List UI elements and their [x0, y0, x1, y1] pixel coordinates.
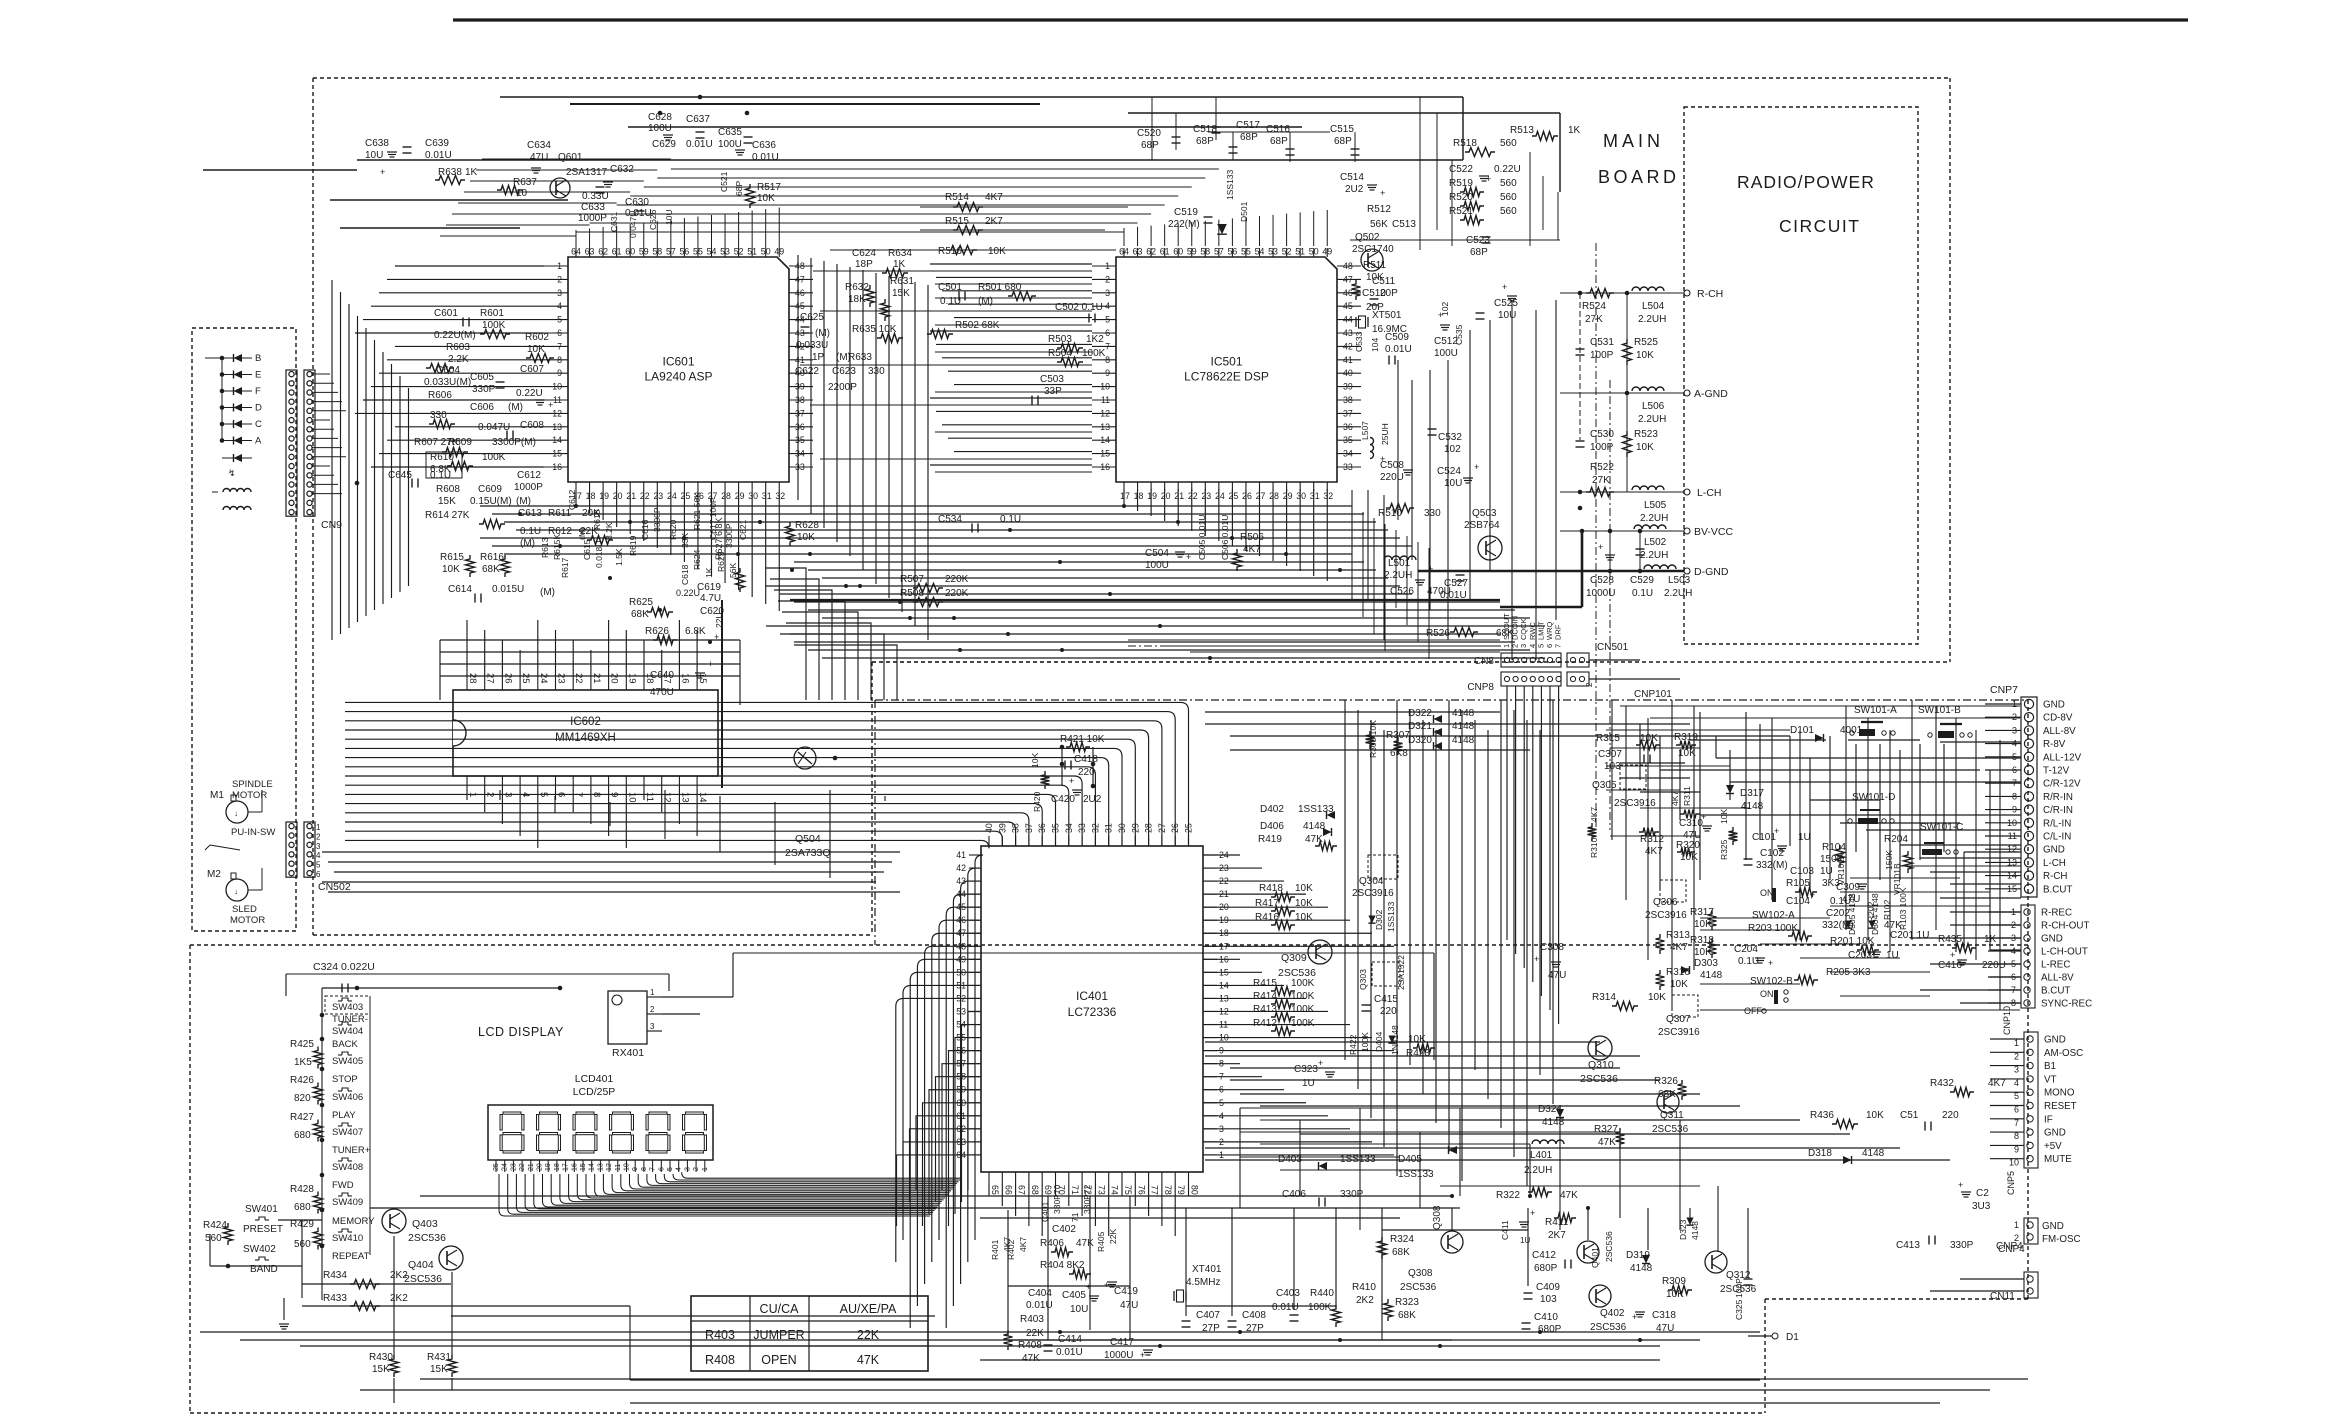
svg-text:R401: R401 — [990, 1239, 1000, 1260]
svg-text:SW102-A: SW102-A — [1752, 910, 1795, 921]
svg-text:47K: 47K — [857, 1353, 880, 1367]
svg-text:C609: C609 — [478, 484, 502, 495]
svg-text:R625: R625 — [629, 597, 653, 608]
svg-text:R609: R609 — [448, 437, 472, 448]
svg-text:Q304: Q304 — [1359, 876, 1384, 887]
svg-text:C515: C515 — [1330, 124, 1354, 135]
svg-text:18: 18 — [586, 491, 596, 501]
svg-text:IC501: IC501 — [1210, 355, 1242, 369]
svg-text:ALL-12V: ALL-12V — [2043, 752, 2082, 763]
svg-text:4K7: 4K7 — [985, 192, 1003, 203]
svg-text:D302: D302 — [1374, 909, 1384, 930]
svg-text:C524: C524 — [1437, 466, 1461, 477]
svg-text:+: + — [1140, 1350, 1145, 1360]
svg-text:R-CH-OUT: R-CH-OUT — [2041, 921, 2089, 932]
svg-text:C412: C412 — [1532, 1250, 1556, 1261]
svg-text:4148: 4148 — [1303, 821, 1326, 832]
svg-text:PLAY: PLAY — [332, 1110, 356, 1121]
svg-text:L506: L506 — [1642, 401, 1665, 412]
svg-text:R323: R323 — [1395, 1297, 1419, 1308]
svg-text:2SC536: 2SC536 — [408, 1232, 446, 1244]
svg-text:C636: C636 — [752, 140, 776, 151]
svg-text:16: 16 — [1100, 462, 1110, 472]
svg-text:R603: R603 — [446, 342, 470, 353]
svg-text:21: 21 — [626, 491, 636, 501]
svg-text:68P: 68P — [1141, 140, 1159, 151]
svg-text:R413: R413 — [1253, 1004, 1277, 1015]
svg-text:100U: 100U — [648, 123, 672, 134]
svg-text:C410: C410 — [1534, 1312, 1558, 1323]
svg-text:0.1U: 0.1U — [430, 470, 451, 481]
svg-text:15K: 15K — [892, 288, 910, 299]
svg-text:1P: 1P — [812, 352, 825, 363]
svg-text:R632: R632 — [845, 282, 869, 293]
svg-text:25: 25 — [520, 673, 531, 684]
svg-text:C520: C520 — [1137, 128, 1161, 139]
svg-text:C604: C604 — [436, 365, 460, 376]
svg-text:E: E — [255, 370, 261, 381]
svg-text:D404: D404 — [1374, 1031, 1384, 1052]
svg-text:PRESET: PRESET — [243, 1224, 283, 1235]
svg-text:26: 26 — [502, 673, 513, 684]
svg-text:C307: C307 — [1598, 749, 1622, 760]
svg-text:Q303: Q303 — [1358, 969, 1368, 990]
svg-text:15: 15 — [1100, 449, 1110, 459]
svg-text:330P: 330P — [472, 384, 496, 395]
svg-text:C51: C51 — [1900, 1110, 1919, 1121]
svg-text:14: 14 — [1100, 435, 1110, 445]
svg-text:0.033U: 0.033U — [796, 340, 828, 351]
svg-text:55: 55 — [1241, 247, 1251, 257]
svg-text:SW402: SW402 — [243, 1244, 276, 1255]
svg-text:71: 71 — [1070, 1212, 1080, 1222]
svg-text:58: 58 — [1200, 247, 1210, 257]
svg-text:35: 35 — [1343, 435, 1353, 445]
svg-text:C635: C635 — [718, 127, 742, 138]
svg-text:R522: R522 — [1590, 462, 1614, 473]
svg-text:R616: R616 — [480, 552, 504, 563]
svg-text:68K: 68K — [1398, 1310, 1416, 1321]
svg-text:R-REC: R-REC — [2041, 908, 2072, 919]
svg-text:47: 47 — [1343, 274, 1353, 284]
svg-text:C629: C629 — [652, 139, 676, 150]
svg-text:SW410: SW410 — [332, 1233, 363, 1244]
svg-text:GND: GND — [2044, 1128, 2066, 1139]
svg-text:C318: C318 — [1652, 1310, 1676, 1321]
svg-text:C526: C526 — [1390, 586, 1414, 597]
svg-text:2.2UH: 2.2UH — [1640, 513, 1668, 524]
svg-text:CNP4: CNP4 — [1998, 1244, 2025, 1255]
svg-text:3: 3 — [316, 842, 321, 851]
svg-text:18: 18 — [1134, 491, 1144, 501]
svg-text:10: 10 — [552, 382, 562, 392]
svg-text:23: 23 — [510, 1163, 517, 1171]
svg-text:103: 103 — [1540, 1294, 1557, 1305]
svg-text:8: 8 — [1105, 355, 1110, 365]
svg-text:2SC536: 2SC536 — [1590, 1322, 1627, 1333]
svg-text:24: 24 — [502, 1163, 509, 1171]
svg-text:10U: 10U — [1070, 1304, 1088, 1315]
svg-text:IC602: IC602 — [570, 716, 601, 728]
svg-text:2.2UH: 2.2UH — [1638, 314, 1666, 325]
svg-text:6: 6 — [658, 1167, 665, 1171]
svg-text:10K: 10K — [1678, 748, 1696, 759]
svg-text:C608: C608 — [520, 420, 544, 431]
svg-text:20: 20 — [613, 491, 623, 501]
svg-text:SW101-A: SW101-A — [1854, 705, 1897, 716]
svg-text:29: 29 — [1283, 491, 1293, 501]
svg-text:10K: 10K — [527, 344, 545, 355]
svg-text:D318: D318 — [1808, 1148, 1832, 1159]
svg-text:R403: R403 — [705, 1328, 735, 1342]
svg-text:C601: C601 — [434, 308, 458, 319]
svg-text:15: 15 — [552, 449, 562, 459]
svg-text:1: 1 — [316, 823, 321, 832]
svg-text:R513: R513 — [1510, 125, 1534, 136]
svg-text:Q305: Q305 — [1592, 780, 1617, 791]
svg-text:16: 16 — [679, 673, 690, 684]
svg-text:R525: R525 — [1634, 337, 1658, 348]
svg-text:1SS133: 1SS133 — [1225, 169, 1235, 200]
svg-text:2.2UH: 2.2UH — [1664, 588, 1692, 599]
svg-text:10: 10 — [1100, 382, 1110, 392]
svg-text:C409: C409 — [1536, 1282, 1560, 1293]
svg-text:GND: GND — [2044, 1035, 2066, 1046]
svg-text:21: 21 — [591, 673, 602, 684]
svg-text:74: 74 — [1110, 1185, 1120, 1195]
svg-text:1K2: 1K2 — [1086, 334, 1104, 345]
svg-text:39: 39 — [1343, 382, 1353, 392]
svg-text:R-8V: R-8V — [2043, 739, 2066, 750]
svg-text:RX401: RX401 — [612, 1047, 644, 1059]
svg-text:C623: C623 — [832, 366, 856, 377]
svg-text:220U: 220U — [1982, 960, 2006, 971]
svg-text:0.1U: 0.1U — [1000, 514, 1021, 525]
svg-text:26: 26 — [1242, 491, 1252, 501]
svg-text:R-CH: R-CH — [1697, 288, 1723, 300]
svg-text:BV-VCC: BV-VCC — [1694, 526, 1734, 538]
svg-text:68K: 68K — [631, 609, 649, 620]
svg-text:L507: L507 — [1360, 421, 1370, 440]
svg-text:C528: C528 — [1590, 575, 1614, 586]
svg-text:C2: C2 — [1976, 1188, 1989, 1199]
svg-text:MOTOR: MOTOR — [230, 915, 265, 926]
svg-text:13: 13 — [597, 1163, 604, 1171]
svg-text:REPEAT: REPEAT — [332, 1251, 370, 1262]
svg-text:R432: R432 — [1930, 1078, 1954, 1089]
svg-text:C204: C204 — [1734, 944, 1758, 955]
svg-text:44: 44 — [1343, 315, 1353, 325]
svg-text:R314: R314 — [1592, 992, 1616, 1003]
svg-text:1N4148: 1N4148 — [1390, 1025, 1400, 1055]
svg-text:1K: 1K — [465, 167, 478, 178]
svg-text:C406: C406 — [1282, 1189, 1306, 1200]
svg-text:820: 820 — [294, 1093, 311, 1104]
svg-text:0.22U: 0.22U — [516, 388, 543, 399]
svg-text:+: + — [1534, 954, 1539, 964]
svg-text:2200P: 2200P — [828, 382, 857, 393]
svg-text:R617: R617 — [560, 557, 570, 578]
svg-text:100U: 100U — [1434, 348, 1458, 359]
svg-text:2SC3916: 2SC3916 — [1658, 1027, 1700, 1038]
svg-text:8: 8 — [557, 355, 562, 365]
svg-text:100U: 100U — [1145, 560, 1169, 571]
svg-text:41: 41 — [1343, 355, 1353, 365]
svg-text:R310: R310 — [1589, 837, 1599, 858]
svg-text:M2: M2 — [207, 869, 221, 880]
svg-text:680P: 680P — [1538, 1324, 1562, 1335]
svg-text:42: 42 — [1343, 341, 1353, 351]
svg-text:CN502: CN502 — [318, 881, 351, 893]
svg-text:78: 78 — [1163, 1185, 1173, 1195]
svg-text:36: 36 — [1343, 422, 1353, 432]
svg-text:56: 56 — [1228, 247, 1238, 257]
svg-text:FWD: FWD — [332, 1180, 354, 1191]
svg-text:R311: R311 — [1682, 786, 1692, 806]
svg-text:2SC536: 2SC536 — [1400, 1282, 1437, 1293]
svg-text:68P: 68P — [1270, 136, 1288, 147]
svg-text:R427: R427 — [290, 1112, 314, 1123]
svg-text:10K: 10K — [1295, 883, 1313, 894]
svg-text:R/R-IN: R/R-IN — [2043, 792, 2073, 803]
svg-text:38: 38 — [1343, 395, 1353, 405]
svg-text:SW403: SW403 — [332, 1002, 363, 1013]
svg-text:R618: R618 — [592, 509, 602, 530]
svg-text:47U: 47U — [530, 152, 548, 163]
svg-text:23: 23 — [556, 673, 567, 684]
svg-text:39: 39 — [795, 382, 805, 392]
svg-text:C/R-12V: C/R-12V — [2043, 779, 2081, 790]
svg-text:TUNER+: TUNER+ — [332, 1145, 371, 1156]
svg-text:R428: R428 — [290, 1184, 314, 1195]
svg-text:C403: C403 — [1276, 1288, 1300, 1299]
svg-text:4K7: 4K7 — [1589, 807, 1599, 822]
svg-text:10: 10 — [624, 1163, 631, 1171]
svg-text:560: 560 — [1500, 138, 1517, 149]
svg-text:4K7: 4K7 — [1243, 544, 1261, 555]
svg-text:2SC3916: 2SC3916 — [1352, 888, 1394, 899]
svg-text:77: 77 — [1150, 1185, 1160, 1195]
svg-text:10K: 10K — [1648, 992, 1666, 1003]
svg-text:L-REC: L-REC — [2041, 960, 2070, 971]
svg-text:12: 12 — [1100, 408, 1110, 418]
svg-text:10K: 10K — [1636, 350, 1654, 361]
svg-text:R105: R105 — [1786, 878, 1810, 889]
svg-text:Q502: Q502 — [1355, 232, 1380, 243]
svg-text:330P70: 330P70 — [1052, 1184, 1062, 1214]
svg-text:D323: D323 — [1678, 1219, 1688, 1240]
svg-text:50: 50 — [1309, 247, 1319, 257]
svg-text:RADIO/POWER: RADIO/POWER — [1737, 172, 1875, 192]
svg-text:71: 71 — [1070, 1185, 1080, 1195]
svg-text:Q402: Q402 — [1600, 1308, 1625, 1319]
svg-text:27: 27 — [485, 673, 496, 684]
svg-text:R614 27K: R614 27K — [425, 510, 470, 521]
svg-text:2SC536: 2SC536 — [1278, 967, 1316, 979]
svg-text:+: + — [1774, 826, 1779, 836]
svg-text:R319: R319 — [1674, 732, 1698, 743]
svg-text:R621 56K: R621 56K — [692, 492, 702, 530]
svg-text:43: 43 — [1343, 328, 1353, 338]
svg-text:2K7: 2K7 — [985, 216, 1003, 227]
svg-text:22K: 22K — [1026, 1328, 1044, 1339]
svg-text:3: 3 — [557, 288, 562, 298]
svg-text:+: + — [1958, 1180, 1963, 1190]
svg-text:13: 13 — [1100, 422, 1110, 432]
svg-text:MAIN: MAIN — [1603, 131, 1664, 151]
svg-text:68P: 68P — [734, 181, 744, 196]
svg-text:SW401: SW401 — [245, 1204, 278, 1215]
svg-text:21: 21 — [528, 1163, 535, 1171]
svg-text:11: 11 — [553, 395, 562, 405]
svg-text:C419: C419 — [1114, 1286, 1138, 1297]
svg-text:52: 52 — [1282, 247, 1292, 257]
svg-text:C637: C637 — [686, 114, 710, 125]
svg-text:47K: 47K — [1598, 1137, 1616, 1148]
svg-text:R419: R419 — [1258, 834, 1282, 845]
svg-text:R418: R418 — [1259, 883, 1283, 894]
svg-text:C633: C633 — [581, 202, 605, 213]
svg-text:332(M): 332(M) — [1822, 920, 1854, 931]
svg-text:C534: C534 — [938, 514, 962, 525]
svg-text:(M): (M) — [520, 538, 535, 549]
svg-text:35: 35 — [795, 435, 805, 445]
svg-text:C634: C634 — [527, 140, 551, 151]
svg-text:Q403: Q403 — [412, 1218, 438, 1230]
svg-text:10K: 10K — [1866, 1110, 1884, 1121]
svg-text:220K: 220K — [945, 588, 969, 599]
svg-text:MUTE: MUTE — [2044, 1154, 2072, 1165]
svg-text:R634: R634 — [888, 248, 912, 259]
svg-text:10U: 10U — [365, 150, 383, 161]
svg-text:56K: 56K — [728, 563, 738, 578]
svg-text:7: 7 — [1105, 341, 1110, 351]
svg-text:C511: C511 — [1372, 276, 1396, 287]
svg-text:M1: M1 — [210, 790, 224, 801]
svg-text:0.15U(M): 0.15U(M) — [470, 496, 512, 507]
svg-text:C420: C420 — [1051, 794, 1075, 805]
svg-text:+: + — [1069, 776, 1074, 786]
svg-text:6: 6 — [316, 870, 321, 879]
svg-text:C631: C631 — [609, 211, 619, 232]
svg-text:5: 5 — [667, 1167, 674, 1171]
svg-text:2U2: 2U2 — [1345, 184, 1364, 195]
svg-text:JUMPER: JUMPER — [753, 1328, 804, 1342]
svg-text:27K: 27K — [1585, 314, 1603, 325]
svg-text:49: 49 — [1322, 247, 1332, 257]
svg-text:21: 21 — [1174, 491, 1184, 501]
svg-text:C533: C533 — [1354, 331, 1364, 352]
svg-text:R315: R315 — [1596, 733, 1620, 744]
svg-text:R606: R606 — [428, 390, 452, 401]
svg-text:CNP5: CNP5 — [2006, 1171, 2016, 1195]
svg-text:TUNER-: TUNER- — [332, 1014, 368, 1025]
svg-text:10K: 10K — [1636, 442, 1654, 453]
svg-text:SW406: SW406 — [332, 1092, 363, 1103]
svg-text:C527: C527 — [1444, 578, 1468, 589]
svg-text:100K: 100K — [1291, 1004, 1315, 1015]
svg-text:67: 67 — [1017, 1185, 1027, 1195]
svg-text:13: 13 — [679, 792, 690, 803]
svg-text:C606: C606 — [470, 402, 494, 413]
svg-text:(M): (M) — [516, 496, 531, 507]
svg-text:1SS133: 1SS133 — [1398, 1169, 1434, 1180]
svg-text:R420: R420 — [1032, 791, 1042, 812]
svg-text:C519: C519 — [1174, 207, 1198, 218]
svg-text:28: 28 — [1269, 491, 1279, 501]
svg-text:102: 102 — [1440, 302, 1450, 316]
svg-text:47U: 47U — [1548, 970, 1566, 981]
svg-text:34: 34 — [795, 449, 805, 459]
svg-text:68P: 68P — [1470, 247, 1488, 258]
svg-text:C535: C535 — [1454, 324, 1464, 345]
svg-text:R408: R408 — [705, 1353, 735, 1367]
svg-text:R526: R526 — [1426, 628, 1450, 639]
svg-text:L-CH-OUT: L-CH-OUT — [2041, 947, 2088, 958]
svg-text:C530: C530 — [1590, 429, 1614, 440]
svg-text:1K5: 1K5 — [294, 1057, 312, 1068]
svg-text:0.1U: 0.1U — [520, 526, 541, 537]
svg-text:3: 3 — [1105, 288, 1110, 298]
svg-text:C101: C101 — [1752, 832, 1776, 843]
svg-text:R203 100K: R203 100K — [1748, 923, 1798, 934]
svg-text:IC401: IC401 — [1076, 989, 1108, 1003]
svg-text:C504: C504 — [1145, 548, 1169, 559]
svg-text:2SC536: 2SC536 — [1604, 1231, 1614, 1262]
svg-text:R410: R410 — [1352, 1282, 1376, 1293]
svg-text:SW101-B: SW101-B — [1918, 705, 1961, 716]
svg-text:CN501: CN501 — [1597, 642, 1629, 653]
svg-text:CU/CA: CU/CA — [760, 1302, 800, 1316]
svg-text:+: + — [1428, 564, 1433, 574]
svg-text:2K7: 2K7 — [1548, 1230, 1566, 1241]
svg-text:75: 75 — [1123, 1185, 1133, 1195]
svg-text:C618: C618 — [680, 564, 690, 585]
svg-text:R322: R322 — [1496, 1190, 1520, 1201]
svg-text:C103: C103 — [1790, 866, 1814, 877]
svg-text:9: 9 — [1105, 368, 1110, 378]
svg-text:4148: 4148 — [1542, 1117, 1565, 1128]
svg-text:104: 104 — [1370, 338, 1380, 352]
svg-text:(M): (M) — [508, 402, 523, 413]
svg-text:D321: D321 — [1408, 721, 1432, 732]
svg-text:51: 51 — [1295, 247, 1305, 257]
svg-text:48: 48 — [1343, 261, 1353, 271]
svg-text:C614: C614 — [448, 584, 472, 595]
svg-text:4K7: 4K7 — [1018, 1237, 1028, 1252]
svg-text:37: 37 — [1343, 408, 1353, 418]
svg-text:CNP101: CNP101 — [1634, 689, 1672, 700]
svg-text:2: 2 — [1105, 274, 1110, 284]
svg-text:C323: C323 — [1294, 1064, 1318, 1075]
svg-text:LA9240 ASP: LA9240 ASP — [644, 370, 712, 384]
svg-text:1K: 1K — [704, 567, 714, 578]
svg-text:R434: R434 — [323, 1270, 347, 1281]
svg-text:47U: 47U — [1120, 1300, 1138, 1311]
svg-text:22K: 22K — [857, 1328, 880, 1342]
svg-text:560: 560 — [1500, 178, 1517, 189]
svg-text:C325: C325 — [1734, 1299, 1744, 1320]
svg-text:SW407: SW407 — [332, 1127, 363, 1138]
svg-text:STOP: STOP — [332, 1074, 358, 1085]
svg-text:47: 47 — [795, 274, 805, 284]
svg-text:73: 73 — [1096, 1185, 1106, 1195]
svg-text:22: 22 — [640, 491, 650, 501]
svg-text:10K: 10K — [442, 564, 460, 575]
svg-text:D: D — [255, 403, 262, 414]
svg-text:18: 18 — [554, 1163, 561, 1171]
svg-text:+: + — [1380, 188, 1385, 198]
